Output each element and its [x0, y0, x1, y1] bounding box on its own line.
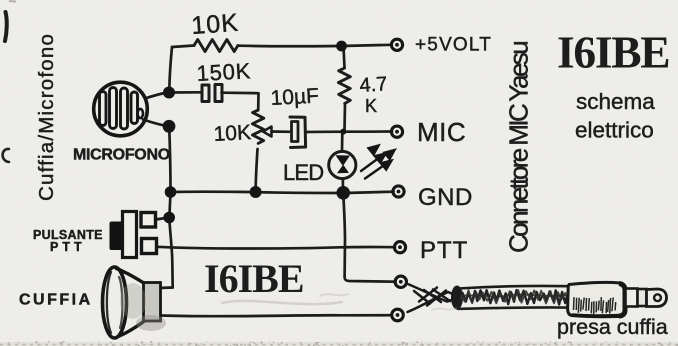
svg-text:+5VOLT: +5VOLT — [415, 35, 492, 56]
left edge artifact letter c — [3, 149, 9, 162]
speaker shading smudge — [136, 315, 166, 331]
resistor 4.7K zigzag — [338, 68, 350, 104]
scan edge dotted line — [0, 344, 678, 346]
wire: GND line mid segment — [257, 191, 341, 195]
speaker (cuffia) horn — [103, 267, 146, 338]
wire: left bus upper segment (10K corner down to mic+ node) — [169, 47, 172, 91]
capacitor 10uF right bracket plate — [290, 117, 306, 148]
wire: left bus (GND node to PTT node) — [169, 193, 170, 216]
wire: GND line left segment — [171, 190, 255, 193]
node: GND-bus left junction — [165, 186, 177, 198]
svg-text:I6IBE: I6IBE — [557, 27, 669, 78]
svg-text:LED: LED — [283, 160, 323, 185]
wire: left bus lower (PTT node down to speaker corner) — [169, 219, 172, 288]
wire: mic+ lead — [145, 93, 167, 99]
svg-text:10K: 10K — [213, 121, 252, 146]
node: mic- junction — [163, 120, 176, 133]
terminal phone tip — [395, 276, 406, 287]
capacitor 10uF left plate — [292, 122, 299, 142]
wire: GND line right segment — [345, 192, 394, 193]
headphone cable start ring — [451, 286, 463, 310]
LED circle — [329, 151, 356, 178]
pot wiper shaft — [272, 130, 291, 133]
left edge artifact mark top — [5, 12, 7, 41]
svg-text:10µF: 10µF — [270, 84, 319, 109]
speaker driver block — [144, 283, 161, 322]
node: pot bottom on GND line — [250, 186, 262, 198]
svg-text:GND: GND — [418, 184, 473, 211]
PTT switch bottom contact — [142, 239, 157, 254]
capacitor 150K right plate — [215, 85, 222, 102]
terminal GND — [393, 186, 404, 197]
terminal PTT — [394, 242, 405, 253]
node: LED bottom on GND line — [336, 186, 350, 200]
wire: pot bottom to GND line — [256, 149, 258, 190]
wire: node to +5V terminal — [341, 45, 392, 46]
headphone plug twisted leads — [407, 284, 456, 313]
node: PTT-bus junction — [163, 212, 175, 224]
microphone body — [94, 82, 148, 136]
wire: speaker bottom long line to jack terminal 2 — [161, 315, 392, 316]
node: mic+ junction — [163, 87, 175, 99]
wire: 150K left lead — [169, 91, 201, 94]
top edge small mark — [9, 0, 16, 3]
capacitor 150K left plate — [202, 85, 209, 102]
wire: 10K left stub — [172, 46, 194, 48]
LED light arrows — [361, 146, 395, 179]
headphone cable body — [458, 286, 569, 309]
svg-text:presa cuffia: presa cuffia — [557, 315, 668, 339]
wire: center bus below GND to jack terminal 1 — [343, 193, 395, 282]
wire: left bus mid (mic- to GND node) — [169, 127, 170, 191]
wire: corner to speaker driver — [159, 286, 173, 289]
resistor/pot 10K vertical zigzag — [252, 110, 263, 143]
svg-text:10K: 10K — [190, 9, 239, 40]
svg-text:I6IBE: I6IBE — [204, 256, 304, 301]
headphone jack barrel — [568, 283, 667, 317]
LED internal symbol — [336, 155, 351, 173]
PTT switch top contact — [141, 213, 156, 228]
terminal MIC — [391, 126, 402, 137]
resistor 10K (top) zigzag — [194, 40, 238, 52]
bottom scan band — [0, 341, 678, 346]
svg-text:MIC: MIC — [417, 117, 466, 147]
svg-text:PTT: PTT — [50, 240, 86, 254]
svg-text:Connettore MIC Yaesu: Connettore MIC Yaesu — [504, 42, 534, 253]
PTT switch actuator bar — [123, 212, 137, 258]
svg-text:PTT: PTT — [420, 237, 468, 264]
wire: 4.7K bottom stub to MIC line — [343, 104, 346, 131]
wire: stub +5V node to 4.7K — [344, 46, 345, 68]
svg-text:schema: schema — [576, 89, 655, 114]
wire: PTT line from switch to terminal — [157, 247, 395, 249]
svg-text:MICROFONO: MICROFONO — [73, 147, 170, 164]
svg-text:CUFFIA: CUFFIA — [19, 292, 93, 309]
terminal phone sleeve — [392, 309, 404, 321]
svg-text:K: K — [365, 96, 377, 116]
node: MIC line / 4.7K junction — [340, 129, 346, 135]
wire: LED bottom stub — [341, 179, 344, 190]
wire: mic- lead — [143, 120, 167, 127]
wire: 150K right lead with corner down to pot — [222, 93, 259, 110]
PTT switch button (black) — [110, 222, 129, 251]
wire: PTT switch top contact to bus node — [156, 218, 167, 220]
svg-text:4.7: 4.7 — [359, 73, 388, 97]
svg-text:Cuffia/Microfono: Cuffia/Microfono — [35, 33, 58, 201]
terminal +5V — [391, 39, 402, 50]
wire: LED top stub — [341, 132, 344, 152]
faint pencil ghost marks — [222, 294, 456, 310]
svg-text:150K: 150K — [196, 58, 252, 86]
node: +5V junction — [336, 41, 347, 52]
wire: cap to MIC terminal line — [306, 130, 392, 133]
wire: 10K to +5V node — [238, 44, 339, 47]
svg-text:elettrico: elettrico — [575, 118, 654, 143]
pot wiper arrow head — [263, 127, 272, 137]
